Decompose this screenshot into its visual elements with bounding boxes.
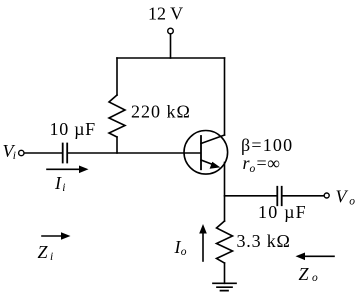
wire emitter down	[224, 163, 226, 222]
svg-text:=∞: =∞	[257, 153, 281, 173]
svg-text:i: i	[13, 150, 16, 162]
wire top rail	[117, 57, 225, 59]
svg-text:β=100: β=100	[241, 135, 293, 155]
svg-text:3.3 kΩ: 3.3 kΩ	[237, 231, 291, 251]
svg-text:Z: Z	[299, 264, 310, 284]
current arrow Io	[202, 233, 204, 261]
wire left drop to RB	[116, 58, 118, 95]
svg-text:220 kΩ: 220 kΩ	[131, 102, 191, 122]
wire collector up	[224, 58, 226, 135]
ground	[213, 283, 236, 290]
transistor Q1 collector stroke	[201, 135, 225, 144]
svg-text:i: i	[62, 182, 65, 194]
transistor Q1 circle	[184, 131, 228, 175]
wire RE to ground	[224, 263, 226, 283]
svg-text:V: V	[336, 186, 349, 206]
svg-text:I: I	[54, 173, 62, 193]
wire RB bottom to base wire	[116, 137, 118, 153]
svg-text:i: i	[50, 251, 53, 263]
wire supply drop	[170, 34, 172, 58]
svg-text:10 µF: 10 µF	[50, 119, 96, 139]
svg-text:o: o	[250, 163, 256, 175]
wire input to cap	[25, 152, 62, 154]
resistor RE 3.3k zigzag	[217, 221, 233, 263]
input terminal Vi	[19, 150, 24, 155]
transistor Q1 base bar	[200, 136, 202, 169]
svg-text:10 µF: 10 µF	[258, 202, 307, 222]
svg-text:o: o	[349, 196, 355, 208]
wire cap to base	[68, 152, 200, 154]
svg-text:o: o	[312, 272, 318, 284]
svg-text:12 V: 12 V	[148, 4, 183, 24]
svg-text:Z: Z	[38, 242, 49, 262]
impedance arrow Zo	[303, 255, 334, 257]
capacitor C1 input bars	[63, 144, 67, 163]
transistor Q1 emitter stroke with arrow	[201, 160, 214, 165]
resistor RB 220k zigzag	[109, 95, 125, 137]
wire emitter to output cap	[225, 195, 277, 197]
svg-text:o: o	[181, 246, 187, 258]
output terminal Vo	[324, 193, 329, 198]
capacitor C2 output bars	[277, 187, 281, 205]
impedance arrow Zi	[42, 235, 63, 237]
current arrow Ii	[47, 168, 81, 170]
wire cap to output terminal	[283, 195, 324, 197]
supply terminal	[168, 28, 174, 34]
